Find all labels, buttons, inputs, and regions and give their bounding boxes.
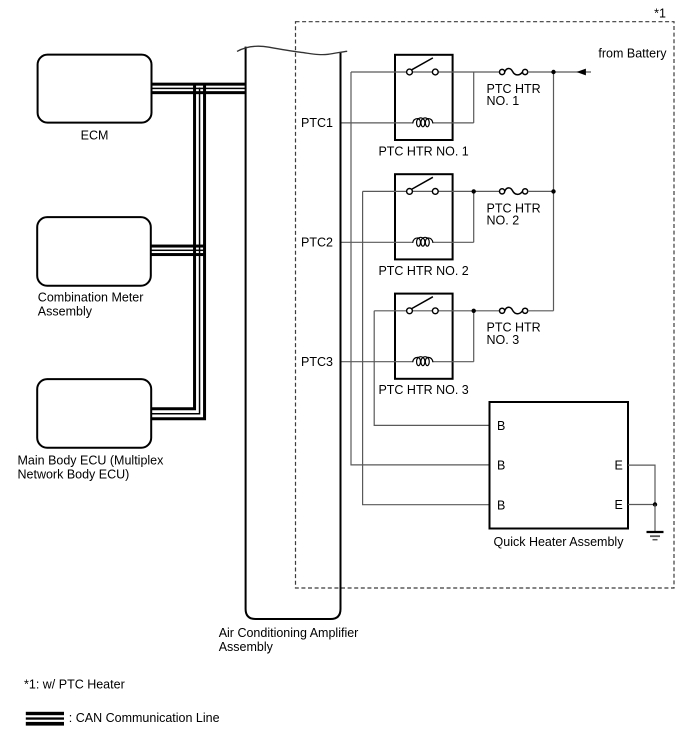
wire: relay 2 rail joining switch and coil battery side	[473, 191, 475, 242]
svg-text:PTC HTR NO. 1: PTC HTR NO. 1	[378, 144, 468, 158]
svg-text:Main Body ECU (Multiplex: Main Body ECU (Multiplex	[18, 453, 165, 467]
Main Body ECU box	[37, 379, 151, 448]
dashed boundary box *1	[296, 22, 675, 588]
svg-text:from Battery: from Battery	[598, 46, 667, 60]
svg-text:Assembly: Assembly	[219, 640, 274, 654]
svg-text:Network Body ECU): Network Body ECU)	[18, 468, 130, 482]
Combination Meter Assembly label	[38, 291, 144, 319]
svg-text:B: B	[497, 419, 505, 433]
wire: relay 1 output down-wire to quick heater B	[351, 72, 490, 465]
CAN stub wire from ECM	[152, 83, 246, 86]
ground symbol	[647, 532, 664, 540]
wire: fuse 3 to battery rail	[528, 310, 554, 312]
wire: relay 3 coil line from amplifier PTC3	[342, 361, 413, 363]
Air Conditioning Amplifier Assembly box	[246, 47, 341, 619]
arrow head from Battery	[578, 69, 586, 75]
relay 3 coil	[413, 357, 433, 366]
svg-text:ECM: ECM	[81, 128, 109, 142]
wire: relay 2 switch line (left terminal to fuse)	[363, 190, 500, 192]
ECM box	[38, 55, 152, 123]
junction dot at ground node	[653, 502, 657, 506]
wire: E pin 1 to ground node	[628, 465, 655, 504]
svg-text:NO. 2: NO. 2	[487, 214, 520, 228]
junction dot	[472, 309, 476, 313]
Main Body ECU label	[18, 453, 165, 481]
wire: relay 1 rail joining switch and coil battery side	[473, 72, 475, 123]
svg-text:PTC1: PTC1	[301, 116, 333, 130]
svg-text:*1: *1	[654, 7, 666, 21]
CAN legend symbol	[26, 712, 64, 726]
svg-text:: CAN Communication Line: : CAN Communication Line	[69, 711, 220, 725]
svg-text:Quick Heater Assembly: Quick Heater Assembly	[494, 535, 625, 549]
svg-text:B: B	[497, 459, 505, 473]
torn-top wavy break line	[237, 46, 347, 54]
Air Conditioning Amplifier Assembly label	[219, 626, 359, 654]
wire: battery feed with arrow	[554, 71, 592, 73]
wire: relay 1 coil line from amplifier PTC1	[342, 122, 413, 124]
fuse PTC HTR NO. 1	[500, 68, 528, 74]
relay PTC HTR NO. 1 box	[395, 55, 453, 140]
svg-text:PTC2: PTC2	[301, 236, 333, 250]
wire: relay 2 coil line from amplifier PTC2	[342, 241, 413, 243]
relay 2 coil	[413, 237, 433, 246]
svg-text:NO. 1: NO. 1	[487, 94, 520, 108]
Combination Meter Assembly box	[37, 217, 151, 286]
svg-text:Assembly: Assembly	[38, 305, 93, 319]
svg-text:NO. 3: NO. 3	[487, 333, 520, 347]
junction dot	[551, 70, 555, 74]
junction dot	[472, 189, 476, 193]
svg-text:E: E	[615, 459, 623, 473]
svg-text:PTC HTR NO. 3: PTC HTR NO. 3	[378, 383, 468, 397]
Quick Heater Assembly box	[490, 402, 629, 529]
junction dot	[551, 189, 555, 193]
relay 3 switch contacts	[407, 297, 439, 314]
wire: relay 3 rail joining switch and coil battery side	[473, 311, 475, 362]
wire: relay 2 output down-wire to quick heater B	[363, 191, 490, 504]
fuse PTC HTR NO. 2	[500, 188, 528, 194]
relay PTC HTR NO. 2 box	[395, 174, 453, 259]
wire: relay 3 output down-wire to quick heater B	[374, 311, 489, 426]
svg-text:PTC HTR NO. 2: PTC HTR NO. 2	[378, 264, 468, 278]
wire: down to ground	[654, 505, 656, 532]
wire: relay 1 switch line (left terminal to fuse)	[351, 71, 500, 73]
relay PTC HTR NO. 3 box	[395, 294, 453, 379]
wire: E pin 2 to ground node	[628, 504, 655, 506]
fuse 1 label	[487, 82, 541, 108]
fuse 3 label	[487, 321, 541, 347]
relay 1 switch contacts	[407, 58, 439, 75]
fuse PTC HTR NO. 3	[500, 307, 528, 313]
svg-text:B: B	[497, 498, 505, 512]
relay 1 coil	[413, 118, 433, 127]
svg-text:*1: w/ PTC Heater: *1: w/ PTC Heater	[24, 677, 125, 691]
fuse 2 label	[487, 201, 541, 227]
svg-text:Air Conditioning Amplifier: Air Conditioning Amplifier	[219, 626, 359, 640]
CAN trunk wire (vertical) with elbow into Main Body ECU	[151, 84, 204, 419]
wire: fuse 1 to battery rail	[528, 71, 554, 73]
wire: relay 3 switch line (left terminal to fuse)	[374, 310, 499, 312]
svg-text:E: E	[615, 498, 623, 512]
wire: battery rail (vertical)	[553, 72, 555, 311]
svg-text:Combination Meter: Combination Meter	[38, 291, 144, 305]
relay 2 switch contacts	[407, 177, 439, 194]
svg-text:PTC3: PTC3	[301, 355, 333, 369]
CAN stub wire from Combination Meter	[151, 245, 205, 248]
wire: fuse 2 to battery rail	[528, 190, 554, 192]
